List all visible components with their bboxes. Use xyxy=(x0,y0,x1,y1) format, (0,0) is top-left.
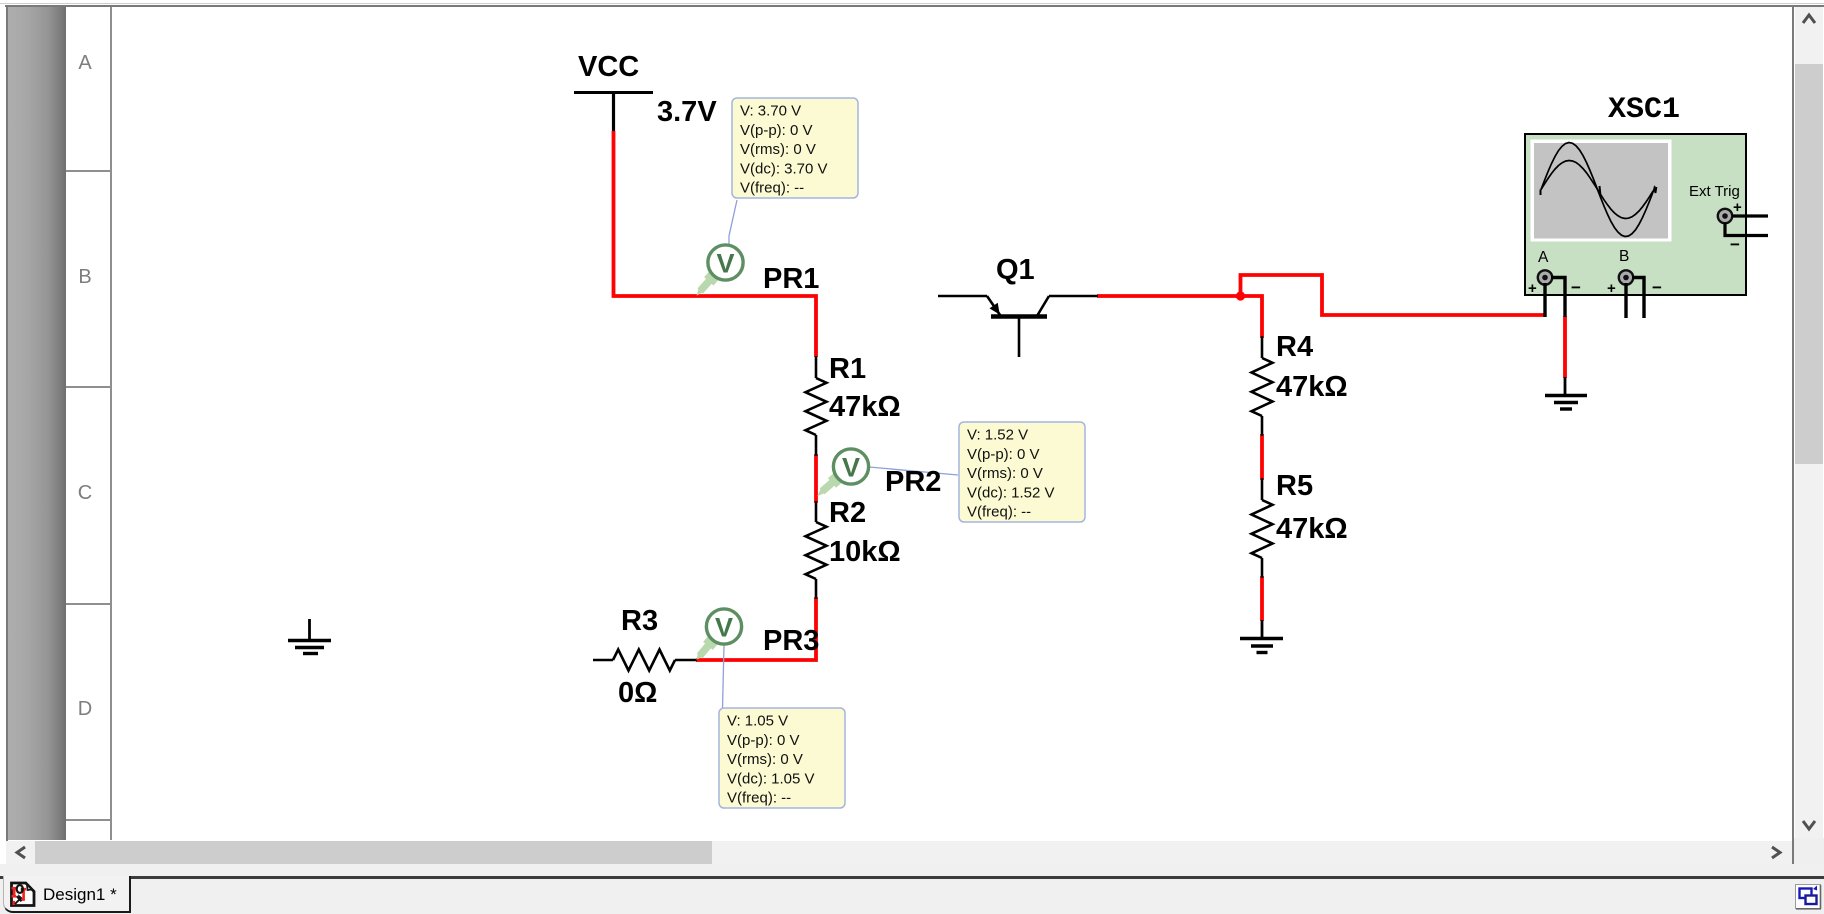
scope trace tick marks xyxy=(1541,186,1657,196)
svg-text:V(p-p): 0 V: V(p-p): 0 V xyxy=(727,732,800,749)
svg-text:V: V xyxy=(715,613,733,643)
vertical scrollbar thumb xyxy=(1795,64,1823,464)
wire Q1 collector to junction xyxy=(1097,294,1244,298)
svg-text:VCC: VCC xyxy=(578,51,639,83)
ground (below R5) xyxy=(1240,620,1283,653)
row divider lines xyxy=(66,170,111,172)
resistor R4 xyxy=(1252,336,1273,436)
voltage probe PR2 xyxy=(817,449,868,496)
tooltip PR1 xyxy=(732,98,858,198)
tab bar top line xyxy=(0,876,1824,879)
svg-text:47kΩ: 47kΩ xyxy=(1276,513,1348,545)
resistor R1 xyxy=(806,356,827,456)
oscilloscope XSC1 body xyxy=(1525,134,1746,295)
wire Ext Trig + stub xyxy=(1732,214,1768,217)
leader line PR1 tooltip xyxy=(729,200,737,246)
terminal Ext Trig xyxy=(1718,199,1742,254)
leader line PR2 tooltip xyxy=(869,467,958,475)
wire R1 to R2 xyxy=(814,454,818,503)
svg-text:+: + xyxy=(1607,280,1616,297)
voltage probe PR1 xyxy=(697,245,744,296)
svg-text:V(freq): --: V(freq): -- xyxy=(967,504,1031,521)
wire junction to R4 xyxy=(1240,296,1262,338)
svg-text:PR1: PR1 xyxy=(763,263,819,295)
svg-text:+: + xyxy=(1733,199,1742,216)
svg-text:V(dc): 3.70 V: V(dc): 3.70 V xyxy=(740,160,828,177)
wire VCC to R1 (red net) xyxy=(614,131,817,357)
svg-text:V: V xyxy=(842,453,860,483)
svg-text:R5: R5 xyxy=(1276,470,1313,502)
svg-text:V(p-p): 0 V: V(p-p): 0 V xyxy=(967,446,1040,463)
svg-text:V(dc): 1.52 V: V(dc): 1.52 V xyxy=(967,484,1055,501)
svg-text:V(rms): 0 V: V(rms): 0 V xyxy=(727,751,803,768)
svg-text:V(freq): --: V(freq): -- xyxy=(727,790,791,807)
svg-text:V(rms): 0 V: V(rms): 0 V xyxy=(740,141,816,158)
svg-text:0Ω: 0Ω xyxy=(618,677,657,709)
svg-text:V: V xyxy=(716,249,734,279)
svg-text:Q1: Q1 xyxy=(996,254,1035,286)
scope trace B (small sine) xyxy=(1541,161,1653,219)
workspace frame right xyxy=(1792,5,1794,865)
svg-text:R1: R1 xyxy=(829,353,866,385)
power VCC xyxy=(574,93,653,133)
wire junction to oscilloscope A+ xyxy=(1241,275,1546,315)
horizontal scrollbar thumb xyxy=(35,841,712,864)
vertical scrollbar track xyxy=(1795,7,1823,838)
border row letters column xyxy=(66,7,110,840)
svg-text:V(rms): 0 V: V(rms): 0 V xyxy=(967,465,1043,482)
scope trace A (large sine) xyxy=(1541,143,1653,237)
svg-text:−: − xyxy=(1730,235,1740,254)
wire R4 to R5 xyxy=(1260,434,1264,480)
top window inner edge line xyxy=(0,3,1824,4)
workspace frame top xyxy=(5,5,1824,7)
wire R2 to R3 / PR3 node xyxy=(696,597,816,660)
wire R5 to ground xyxy=(1260,576,1264,621)
wire scope A- stub xyxy=(1551,278,1565,318)
svg-text:V: 3.70 V: V: 3.70 V xyxy=(740,103,801,120)
svg-text:PR3: PR3 xyxy=(763,625,819,657)
terminal A xyxy=(1528,270,1581,297)
svg-text:−: − xyxy=(1571,278,1581,297)
resistor R2 xyxy=(806,501,827,599)
wire scope B- stub xyxy=(1632,278,1644,319)
tab document icon xyxy=(12,883,35,906)
svg-text:V: 1.05 V: V: 1.05 V xyxy=(727,713,788,730)
svg-text:A: A xyxy=(1538,249,1549,266)
svg-text:V(freq): --: V(freq): -- xyxy=(740,180,804,197)
left page-edge gradient strip xyxy=(8,7,66,840)
svg-text:Ext Trig: Ext Trig xyxy=(1689,183,1740,200)
resistor R5 xyxy=(1252,478,1273,578)
tooltip PR2 xyxy=(959,422,1085,522)
svg-text:B: B xyxy=(1619,248,1629,265)
svg-text:R2: R2 xyxy=(829,497,866,529)
row letters xyxy=(63,52,107,75)
svg-text:XSC1: XSC1 xyxy=(1608,93,1680,127)
svg-text:R3: R3 xyxy=(621,605,658,637)
workspace frame left xyxy=(6,5,8,865)
horizontal scrollbar track xyxy=(6,841,1792,864)
junction dot xyxy=(1236,291,1245,300)
cascade windows icon (bottom right) xyxy=(1796,885,1822,910)
leader line PR3 tooltip xyxy=(723,645,725,709)
tooltip PR3 xyxy=(719,708,845,808)
svg-text:47kΩ: 47kΩ xyxy=(1276,371,1348,403)
wire scope A+ stub xyxy=(1543,283,1546,317)
transistor Q1 xyxy=(938,296,1098,357)
ground (free, row C) xyxy=(288,619,331,654)
svg-text:V(dc): 1.05 V: V(dc): 1.05 V xyxy=(727,770,815,787)
wire Ext Trig - stub xyxy=(1725,223,1768,236)
Design1 tab xyxy=(3,876,131,913)
voltage probe PR3 xyxy=(696,609,741,660)
svg-text:V: 1.52 V: V: 1.52 V xyxy=(967,427,1028,444)
svg-text:+: + xyxy=(1528,280,1537,297)
bottom chrome background xyxy=(0,864,1824,914)
svg-text:V(p-p): 0 V: V(p-p): 0 V xyxy=(740,122,813,139)
wire scope A- to ground xyxy=(1563,316,1567,378)
ground (below oscilloscope A-) xyxy=(1545,377,1587,409)
svg-text:10kΩ: 10kΩ xyxy=(829,536,901,568)
svg-text:3.7V: 3.7V xyxy=(657,96,717,128)
svg-text:−: − xyxy=(1652,278,1662,297)
svg-text:47kΩ: 47kΩ xyxy=(829,391,901,423)
wire scope B+ stub xyxy=(1624,283,1627,318)
terminal B xyxy=(1607,270,1662,297)
svg-text:PR2: PR2 xyxy=(885,466,941,498)
svg-text:R4: R4 xyxy=(1276,331,1313,363)
resistor R3 xyxy=(593,650,697,671)
